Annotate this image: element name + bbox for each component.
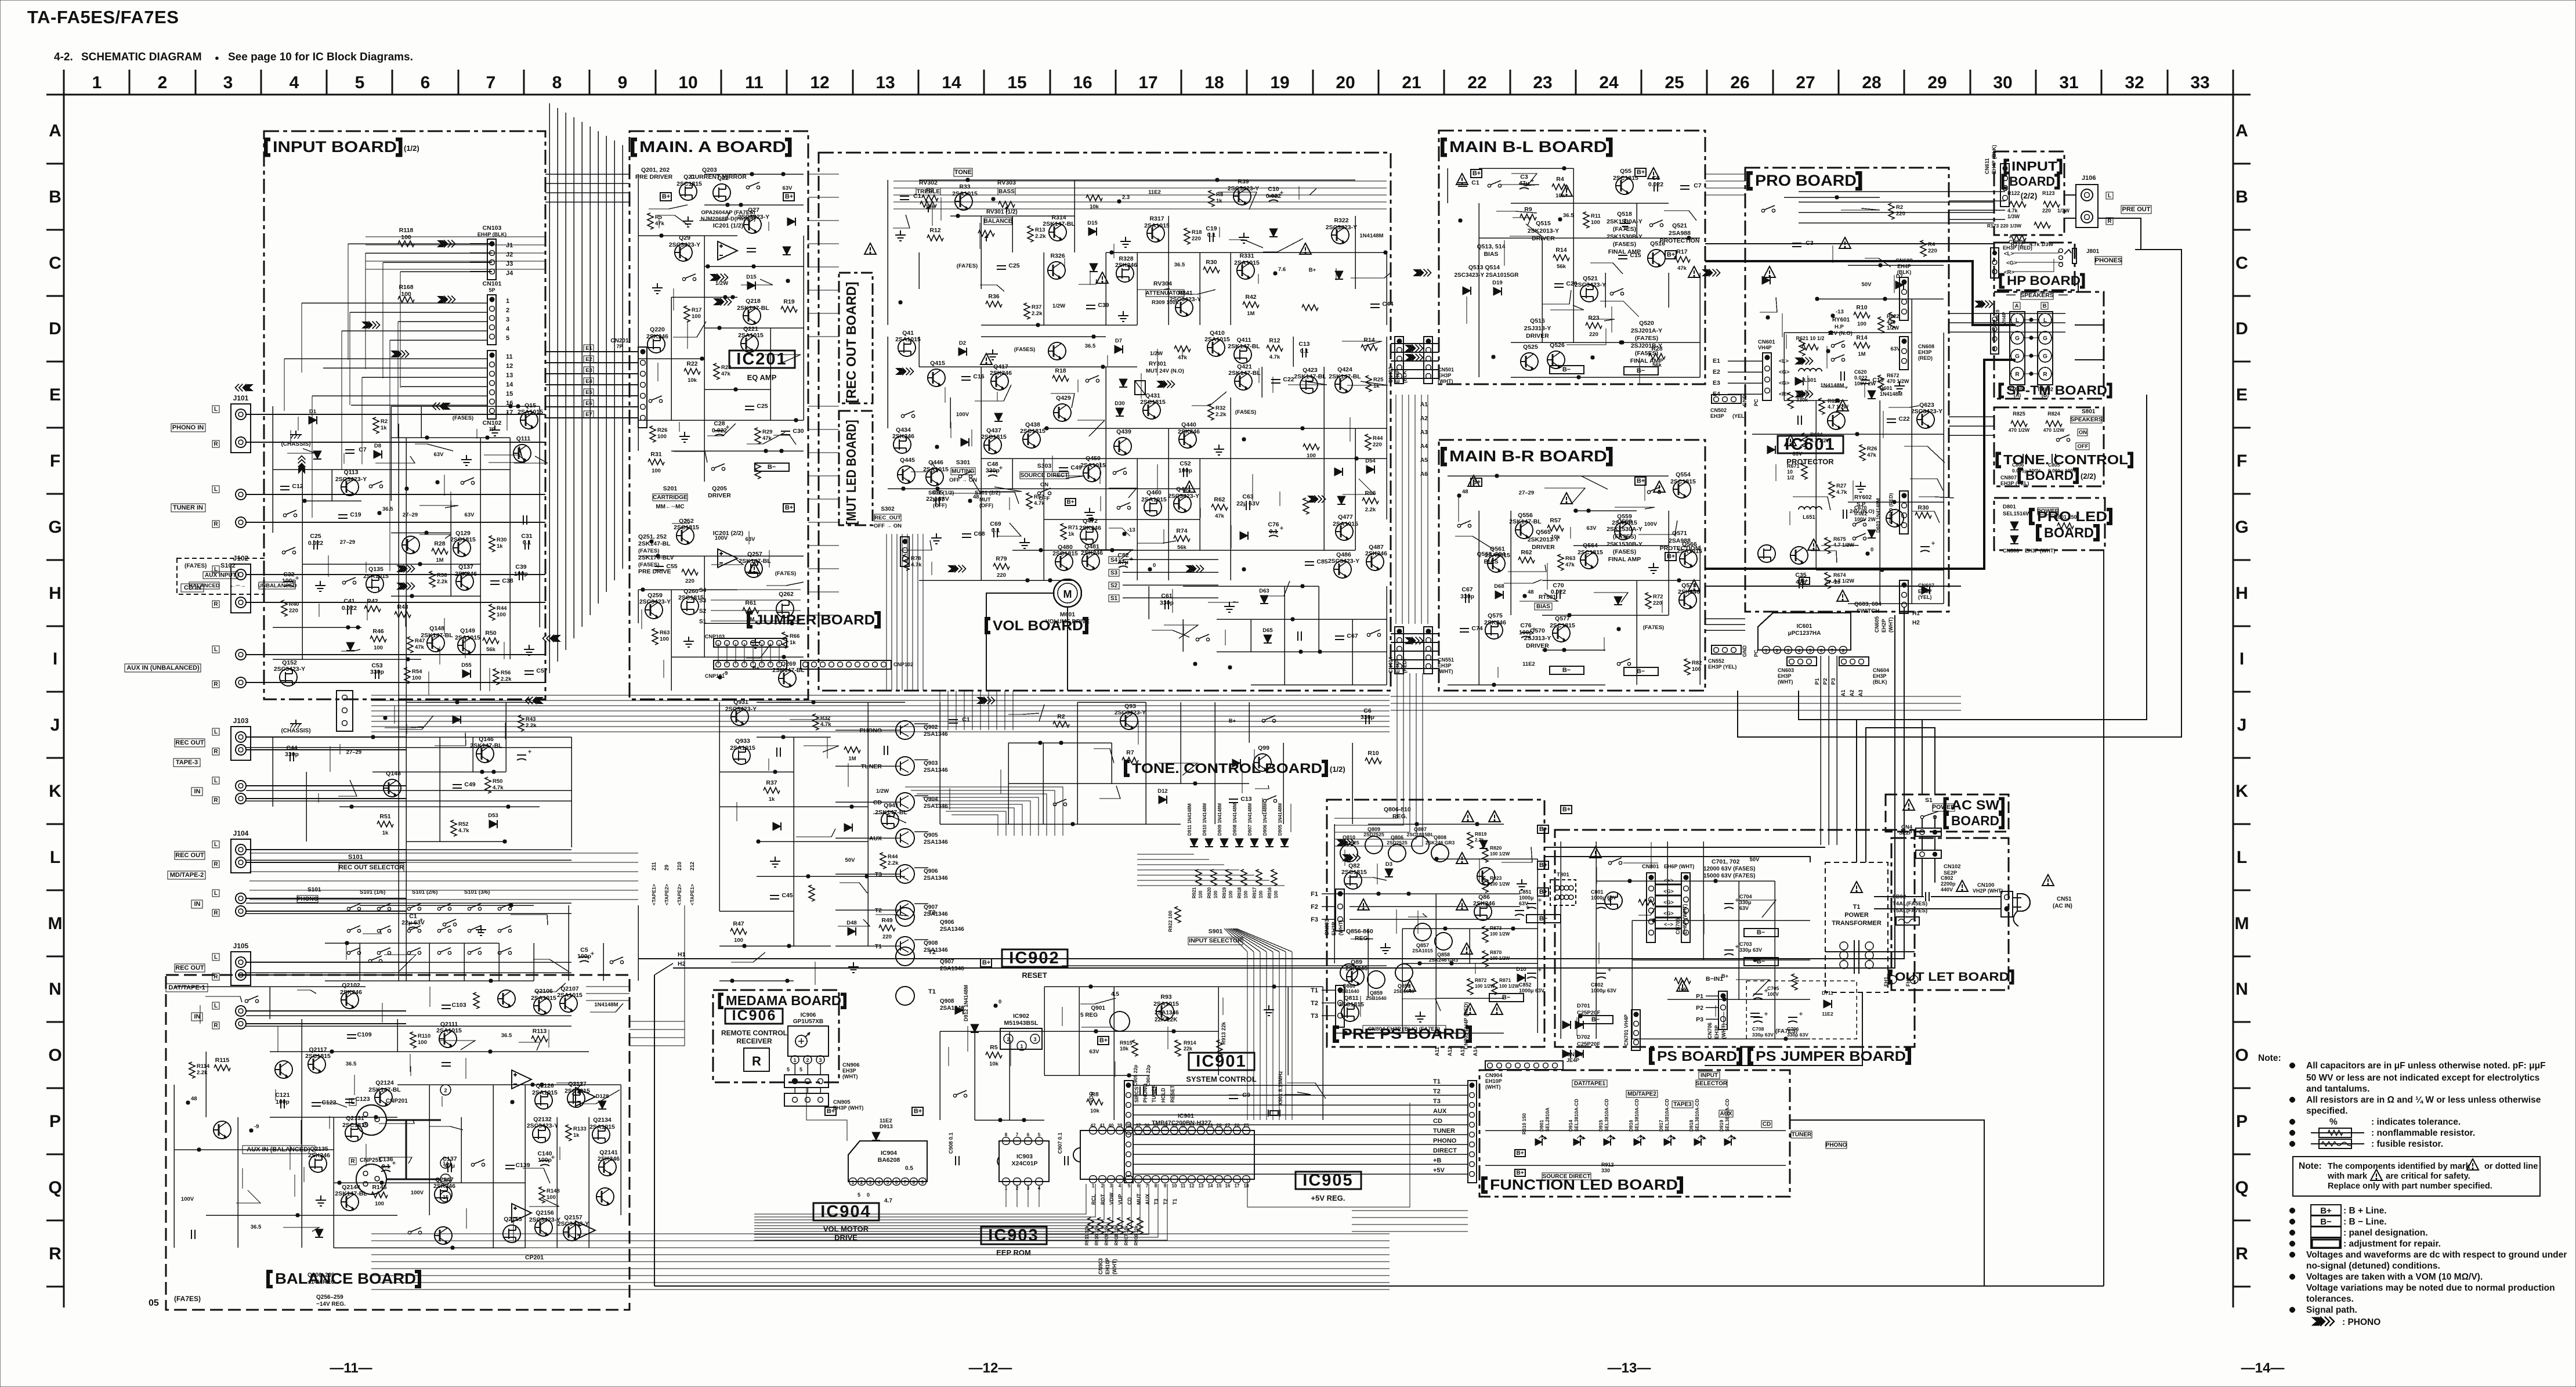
- ground: [848, 962, 859, 973]
- diode D15: [747, 281, 755, 290]
- resistor R12: [1267, 345, 1283, 351]
- svg-text:2SK246: 2SK246: [433, 1183, 455, 1190]
- board outline PRE PS BOARD: [1327, 800, 1544, 1047]
- svg-text:R29: R29: [762, 429, 772, 435]
- svg-text:10k: 10k: [989, 1061, 999, 1067]
- svg-text:100: 100: [418, 1039, 427, 1046]
- svg-text:RV303: RV303: [997, 179, 1016, 186]
- svg-text:(FA7ES): (FA7ES): [1643, 624, 1664, 631]
- connector CN102 7P: [487, 351, 496, 419]
- ground: [1620, 219, 1630, 229]
- transistor Q521: [1580, 284, 1598, 302]
- IC904 BA6208 chip: [848, 1141, 927, 1182]
- svg-text:C10: C10: [1268, 186, 1279, 193]
- svg-text:440V: 440V: [1941, 887, 1953, 893]
- svg-text:2SC3423-Y: 2SC3423-Y: [1228, 185, 1259, 192]
- svg-text:EH3P (YEL): EH3P (YEL): [1708, 664, 1736, 670]
- svg-text:R8: R8: [1216, 192, 1223, 198]
- svg-text:2SA1015: 2SA1015: [1153, 1000, 1179, 1007]
- transistor Q2149: [596, 1188, 614, 1205]
- svg-text:25: 25: [1244, 1123, 1249, 1128]
- svg-text:1k: 1k: [1068, 531, 1074, 537]
- svg-text:B−: B−: [768, 464, 776, 471]
- svg-text:5: 5: [799, 1067, 802, 1072]
- svg-text:R36: R36: [988, 293, 999, 300]
- label TAPE-3: [173, 758, 200, 767]
- wire medama pins: [794, 1064, 795, 1075]
- svg-text:J103: J103: [233, 717, 249, 725]
- svg-text:Q513 Q514: Q513 Q514: [1468, 264, 1500, 271]
- svg-text:R4: R4: [1928, 241, 1935, 248]
- connector CN905 EH3P: [784, 1093, 828, 1106]
- svg-text:100: 100: [1228, 890, 1233, 898]
- transistor Q903 switch TUNER: [896, 757, 914, 775]
- svg-text:<G>: <G>: [2006, 260, 2017, 266]
- capacitor C34: [777, 747, 780, 757]
- svg-text:2SB1640: 2SB1640: [1366, 995, 1387, 1001]
- svg-text:10: 10: [678, 73, 697, 92]
- transistor Q269: [779, 670, 796, 687]
- svg-text:R26: R26: [1867, 446, 1877, 452]
- svg-text:EEP ROM: EEP ROM: [996, 1248, 1031, 1257]
- svg-text:R30: R30: [497, 537, 506, 543]
- svg-text:100: 100: [374, 645, 383, 651]
- svg-text:SE2P: SE2P: [1899, 830, 1912, 836]
- diode D30: [1116, 408, 1124, 416]
- svg-text:B+: B+: [785, 504, 793, 511]
- board outline INPUT BOARD (1/2): [264, 131, 545, 699]
- transistor Q554: [1673, 481, 1691, 498]
- svg-text:L: L: [214, 841, 218, 848]
- svg-text:R114: R114: [197, 1063, 210, 1070]
- svg-text:EH3P: EH3P: [1331, 922, 1337, 935]
- svg-text:220: 220: [997, 572, 1006, 579]
- svg-text:DAT/TAPE-1: DAT/TAPE-1: [168, 984, 205, 991]
- capacitor C36: [884, 746, 888, 755]
- capacitor C55: [654, 566, 664, 570]
- svg-text:2.2k: 2.2k: [501, 676, 512, 682]
- svg-text:Q251, 252: Q251, 252: [638, 533, 667, 540]
- resistor R8: [1087, 1099, 1103, 1105]
- svg-text:2SK147-BL: 2SK147-BL: [1509, 518, 1542, 525]
- svg-text:IN: IN: [194, 901, 201, 908]
- terminal G pair: [2011, 349, 2024, 362]
- label CN804: [1363, 1025, 1446, 1032]
- svg-text:Q450: Q450: [1086, 455, 1101, 462]
- svg-text:(2/2): (2/2): [2081, 472, 2096, 481]
- wire lattice: [1183, 586, 1319, 587]
- svg-text:O: O: [48, 1046, 61, 1065]
- connector jack CD IN: [236, 569, 246, 580]
- resistor R62: [1211, 504, 1228, 510]
- svg-text:27–29: 27–29: [1825, 579, 1840, 586]
- svg-text:32: 32: [2125, 73, 2144, 92]
- svg-text:47k: 47k: [415, 644, 425, 651]
- diode D6: [313, 451, 321, 459]
- svg-text:R79: R79: [996, 555, 1007, 562]
- svg-text:TUNER: TUNER: [1792, 1132, 1812, 1138]
- ground: [1894, 381, 1905, 392]
- connector J105: [231, 952, 251, 985]
- svg-text:R620: R620: [1796, 391, 1809, 397]
- label MD/TAPE-2: [168, 871, 205, 879]
- svg-text:D53: D53: [488, 812, 498, 819]
- svg-text:Q2155: Q2155: [504, 1216, 522, 1223]
- svg-text:S901: S901: [1209, 928, 1223, 935]
- svg-text:D: D: [2235, 319, 2248, 338]
- svg-text:100: 100: [401, 291, 411, 298]
- wire function leds to right boards: [1790, 1120, 1984, 1286]
- svg-text:220: 220: [685, 578, 694, 584]
- transistor Q902 switch PHONO: [896, 721, 914, 739]
- svg-text:27–29: 27–29: [346, 749, 361, 756]
- board label BOARD: [1945, 814, 1949, 828]
- resistor R63: [1558, 554, 1564, 570]
- svg-text:See page 10 for IC Block Diagr: See page 10 for IC Block Diagrams.: [228, 51, 413, 63]
- svg-text:TONE: TONE: [954, 169, 972, 176]
- resistor R122 4.7k: [2010, 201, 2026, 207]
- svg-text:A: A: [2235, 121, 2248, 140]
- svg-text:18: 18: [1204, 73, 1224, 92]
- wire E bus: [545, 351, 638, 352]
- transistor Q525: [1521, 353, 1538, 370]
- svg-text:Q518: Q518: [1617, 211, 1632, 218]
- wire lattice: [360, 905, 534, 906]
- svg-text:BASS: BASS: [998, 189, 1015, 195]
- svg-text:R78: R78: [911, 555, 921, 562]
- svg-text:R624: R624: [1810, 432, 1823, 438]
- svg-text:R25: R25: [1373, 377, 1384, 383]
- transistor Q907 T2: [896, 947, 914, 966]
- svg-text:R62: R62: [1521, 549, 1532, 556]
- svg-text:48: 48: [1462, 489, 1468, 495]
- svg-text:BOARD: BOARD: [2044, 525, 2094, 541]
- transistor Q218: [743, 307, 761, 324]
- transistor Q906 switch T3: [896, 865, 914, 883]
- svg-text:D55: D55: [461, 662, 472, 669]
- svg-text:D12: D12: [1157, 788, 1167, 794]
- svg-text:R2: R2: [926, 187, 934, 194]
- svg-text:100V: 100V: [1767, 991, 1779, 997]
- resistor R17: [684, 306, 690, 322]
- resistor R56: [682, 569, 698, 575]
- svg-text:A3: A3: [1420, 429, 1428, 436]
- svg-text:R52: R52: [458, 821, 468, 828]
- svg-text:2SC3423-Y: 2SC3423-Y: [1170, 296, 1201, 303]
- wire CN103 long runs: [348, 243, 470, 244]
- svg-text:TUNER: TUNER: [861, 763, 882, 770]
- ground: [461, 455, 472, 465]
- svg-text:50V: 50V: [845, 857, 856, 864]
- svg-text:2SK147-BL: 2SK147-BL: [1228, 343, 1260, 350]
- transistor Q93: [1120, 712, 1138, 729]
- switch contact: [1053, 799, 1066, 806]
- svg-text:63V: 63V: [1587, 525, 1597, 532]
- svg-text:R: R: [350, 1158, 355, 1165]
- connector CN502 EH3P GND PC: [1712, 395, 1741, 403]
- svg-text:17: 17: [1138, 73, 1157, 92]
- svg-text:R168: R168: [399, 284, 413, 291]
- svg-text:Q901: Q901: [1091, 1005, 1106, 1012]
- svg-text:R173 220 1/3W: R173 220 1/3W: [1987, 223, 2022, 229]
- svg-text:36.5: 36.5: [1085, 343, 1096, 349]
- svg-text:PC: PC: [1753, 649, 1759, 657]
- board label BOARD: [2003, 175, 2007, 188]
- board label INPUT: [2005, 160, 2009, 173]
- svg-text:Q2131: Q2131: [346, 1115, 364, 1122]
- diode D39: [773, 822, 781, 830]
- svg-text:4.7: 4.7: [884, 1198, 892, 1204]
- transistor Q2156: [535, 1219, 552, 1236]
- svg-text:1k: 1k: [1373, 383, 1380, 389]
- svg-text:C85: C85: [1316, 558, 1327, 565]
- svg-text:63V: 63V: [434, 452, 444, 458]
- svg-text:Q2127: Q2127: [568, 1081, 587, 1088]
- capacitor C705-C708 row: [1753, 989, 1768, 999]
- svg-text:0.1: 0.1: [992, 527, 1000, 534]
- svg-text:100 1/2W: 100 1/2W: [1475, 984, 1495, 989]
- transistor Q860: [1340, 964, 1358, 981]
- switch contact: [610, 957, 623, 964]
- transistor Q461: [1174, 495, 1191, 512]
- capacitor C63: [1246, 501, 1250, 510]
- svg-text:<G>: <G>: [1663, 911, 1674, 916]
- svg-text:REC OUT SELECTOR: REC OUT SELECTOR: [339, 864, 404, 871]
- capacitor C70: [1557, 590, 1560, 599]
- svg-text:Q113: Q113: [343, 469, 358, 476]
- svg-text:2SC1815: 2SC1815: [1020, 428, 1045, 435]
- transistor Q149: [458, 637, 475, 654]
- svg-text:100p: 100p: [276, 1099, 290, 1106]
- svg-text:A: A: [2015, 303, 2019, 309]
- row ticks: [46, 163, 64, 165]
- svg-text:20: 20: [1336, 73, 1355, 92]
- switch contact: [283, 510, 296, 517]
- junction node: [1866, 552, 1869, 555]
- junction node: [436, 481, 439, 484]
- svg-text:4: 4: [878, 1180, 881, 1185]
- transistor Q2116: [275, 1061, 292, 1078]
- resistor R145: [371, 1192, 388, 1198]
- svg-text:R: R: [49, 1244, 61, 1263]
- svg-text:2SC1815: 2SC1815: [450, 536, 476, 543]
- resistor R44: [1365, 434, 1371, 450]
- svg-text:T2: T2: [875, 907, 882, 914]
- svg-text:2SK147-BL: 2SK147-BL: [421, 632, 453, 639]
- op-amp balance R1: [512, 1204, 531, 1222]
- capacitor C45: [770, 895, 779, 899]
- IC label IC904: [813, 1203, 879, 1220]
- svg-text:D908 1N4148M: D908 1N4148M: [1232, 803, 1238, 836]
- svg-text:-13: -13: [1127, 527, 1135, 533]
- resistor R172 4.7k: [2010, 235, 2026, 241]
- svg-text:C82: C82: [1117, 552, 1128, 559]
- svg-text:C49: C49: [464, 781, 475, 788]
- svg-text:Q516: Q516: [1650, 240, 1665, 247]
- board label OUT LET BOARD: [1889, 971, 1893, 983]
- svg-text:D3: D3: [1385, 861, 1392, 868]
- switch contact: [471, 1160, 484, 1166]
- svg-text:R66: R66: [790, 633, 799, 640]
- svg-text:RDT: RDT: [1100, 1194, 1106, 1205]
- svg-text:C41: C41: [343, 598, 354, 605]
- svg-text:B−: B−: [1502, 994, 1510, 1001]
- svg-text:P1: P1: [1696, 993, 1703, 1000]
- wire bottom digital bus: [371, 1233, 1390, 1234]
- svg-text:C703: C703: [1739, 941, 1752, 947]
- svg-text:Q477: Q477: [1338, 514, 1353, 521]
- svg-text:4.7k: 4.7k: [493, 785, 504, 791]
- svg-text:5: 5: [858, 1192, 860, 1198]
- ground: [1380, 943, 1391, 953]
- resistor R28: [1649, 353, 1665, 359]
- resistor R5: [1674, 978, 1691, 984]
- svg-text:S2: S2: [699, 608, 707, 615]
- svg-text:C: C: [2235, 254, 2248, 273]
- switch contact: [711, 464, 725, 471]
- resistor R71: [1061, 523, 1066, 540]
- capacitor C137: [448, 1163, 451, 1172]
- svg-text:47k: 47k: [762, 435, 772, 442]
- svg-text:100p: 100p: [514, 570, 528, 577]
- capacitor C802 2200p: [1926, 892, 1929, 901]
- svg-text:R906 10k: R906 10k: [1134, 1225, 1139, 1245]
- svg-text:(1/2): (1/2): [1330, 765, 1345, 774]
- junction node: [718, 676, 722, 679]
- svg-text:4.7k: 4.7k: [1836, 489, 1847, 496]
- resistor R133: [566, 1125, 571, 1141]
- svg-text:Q99: Q99: [1258, 745, 1269, 752]
- svg-text:2SK147-BL: 2SK147-BL: [638, 540, 671, 547]
- junction node: [1273, 272, 1277, 275]
- capacitor C23: [523, 515, 527, 525]
- transistor Q575: [1485, 622, 1503, 639]
- svg-text:2.2k: 2.2k: [1365, 507, 1376, 513]
- wire main bl to pro: [1705, 174, 1745, 175]
- wire input2 to preout: [1949, 191, 2005, 192]
- transistor Q2144: [341, 1193, 359, 1211]
- svg-text:Q256–259: Q256–259: [316, 1294, 343, 1301]
- transistor Q86: [1474, 903, 1492, 920]
- svg-text:REC OUT: REC OUT: [175, 739, 204, 746]
- svg-text:10k: 10k: [688, 377, 697, 384]
- svg-text:BA6208: BA6208: [878, 1157, 900, 1164]
- resistor R9: [1174, 346, 1191, 352]
- svg-text:MAIN B-R BOARD: MAIN B-R BOARD: [1449, 447, 1607, 465]
- svg-text:PRE OUT: PRE OUT: [2122, 206, 2151, 213]
- svg-text:2200p: 2200p: [1941, 881, 1956, 887]
- ground: [895, 230, 906, 241]
- svg-text:R823: R823: [1490, 875, 1502, 881]
- svg-text:(WHT): (WHT): [1485, 1084, 1501, 1090]
- capacitor C44: [1370, 304, 1380, 308]
- board label TONE. CONTROL BOARD: [1126, 761, 1130, 775]
- capacitor C20: [1798, 416, 1801, 425]
- svg-text:RV301 (1/2): RV301 (1/2): [986, 209, 1018, 215]
- svg-text:EH3P: EH3P: [1918, 349, 1932, 355]
- svg-text:2SK246 GR3: 2SK246 GR3: [1426, 840, 1455, 846]
- transistor Q2127: [567, 1090, 585, 1107]
- svg-text:B+: B+: [1099, 1037, 1108, 1044]
- svg-text:7P: 7P: [616, 344, 623, 349]
- svg-text:(1/2): (1/2): [404, 144, 419, 153]
- svg-text:B: B: [2235, 187, 2248, 207]
- svg-text:2.2k: 2.2k: [1032, 310, 1043, 317]
- diode D53: [489, 820, 497, 828]
- label B+ digital: [825, 1107, 836, 1115]
- svg-text:RESET: RESET: [1022, 971, 1047, 980]
- svg-text:18: 18: [1244, 1183, 1249, 1189]
- transistor Q260: [681, 597, 699, 615]
- svg-text:R11: R11: [1591, 213, 1601, 219]
- junction node: [1242, 568, 1246, 571]
- wire relay AUX: [835, 837, 896, 839]
- wire speaker lines right: [2075, 324, 2104, 326]
- svg-text:A11: A11: [1434, 1047, 1440, 1056]
- wire lattice: [638, 555, 804, 557]
- svg-text:T1: T1: [1311, 987, 1318, 994]
- svg-text:RESET: RESET: [1170, 1085, 1175, 1103]
- resistor R50: [485, 777, 491, 793]
- board outline FUNCTION LED BOARD: [1479, 1070, 1790, 1197]
- resistor R820: [1482, 846, 1488, 862]
- transistor Q220: [647, 335, 665, 353]
- svg-text:EH3P (YEL): EH3P (YEL): [2000, 481, 2029, 486]
- svg-text:EH3P (WHT): EH3P (WHT): [833, 1105, 863, 1111]
- selector contacts: [347, 904, 360, 911]
- junction node: [405, 487, 408, 490]
- svg-text:R317: R317: [1149, 215, 1164, 222]
- svg-text:—14—: —14—: [2241, 1360, 2285, 1376]
- transistor Q629: [1886, 510, 1904, 527]
- svg-text:2SC3423-Y: 2SC3423-Y: [1326, 224, 1357, 231]
- transistor Q41: [898, 339, 916, 356]
- wire tone2 links: [1949, 416, 1994, 417]
- connector CN705: [1681, 873, 1690, 942]
- svg-text:L: L: [214, 1003, 218, 1009]
- wire relay T2: [835, 909, 896, 911]
- svg-text:2SA1346: 2SA1346: [924, 839, 948, 846]
- svg-text:(WHT): (WHT): [1438, 378, 1453, 384]
- svg-text:R57: R57: [1550, 517, 1561, 524]
- svg-text:B+: B+: [1066, 499, 1074, 505]
- junction node: [1492, 355, 1495, 359]
- transistor Q2111: [439, 1030, 457, 1048]
- svg-text:0.1: 0.1: [1300, 348, 1309, 355]
- svg-text:R2: R2: [381, 418, 388, 425]
- svg-text:4: 4: [1798, 648, 1801, 653]
- capacitor C802 1000u: [1597, 968, 1611, 978]
- board outline PS BOARD: [1555, 830, 1915, 1047]
- svg-text:C801: C801: [1591, 889, 1604, 895]
- wire lattice: [919, 179, 1355, 180]
- svg-text:SEL3810A-CD: SEL3810A-CD: [1604, 1099, 1609, 1132]
- svg-text:R44: R44: [888, 854, 898, 860]
- svg-text:C18: C18: [1872, 377, 1883, 384]
- svg-text:J2: J2: [506, 251, 513, 258]
- svg-text:AUX: AUX: [1433, 1108, 1447, 1115]
- ground: [1019, 538, 1030, 548]
- svg-text:D910 1N4148M: D910 1N4148M: [1202, 803, 1207, 836]
- junction node: [1826, 349, 1830, 353]
- svg-text:SYSTEM CONTROL: SYSTEM CONTROL: [1186, 1075, 1256, 1083]
- svg-text:C28: C28: [714, 420, 725, 427]
- svg-text:37: 37: [1136, 1123, 1141, 1128]
- svg-text:H.P: H.P: [1835, 324, 1844, 330]
- svg-text:C67: C67: [1461, 586, 1472, 593]
- svg-text:μPC1237HA: μPC1237HA: [1788, 630, 1821, 637]
- svg-text:C67: C67: [1347, 633, 1358, 640]
